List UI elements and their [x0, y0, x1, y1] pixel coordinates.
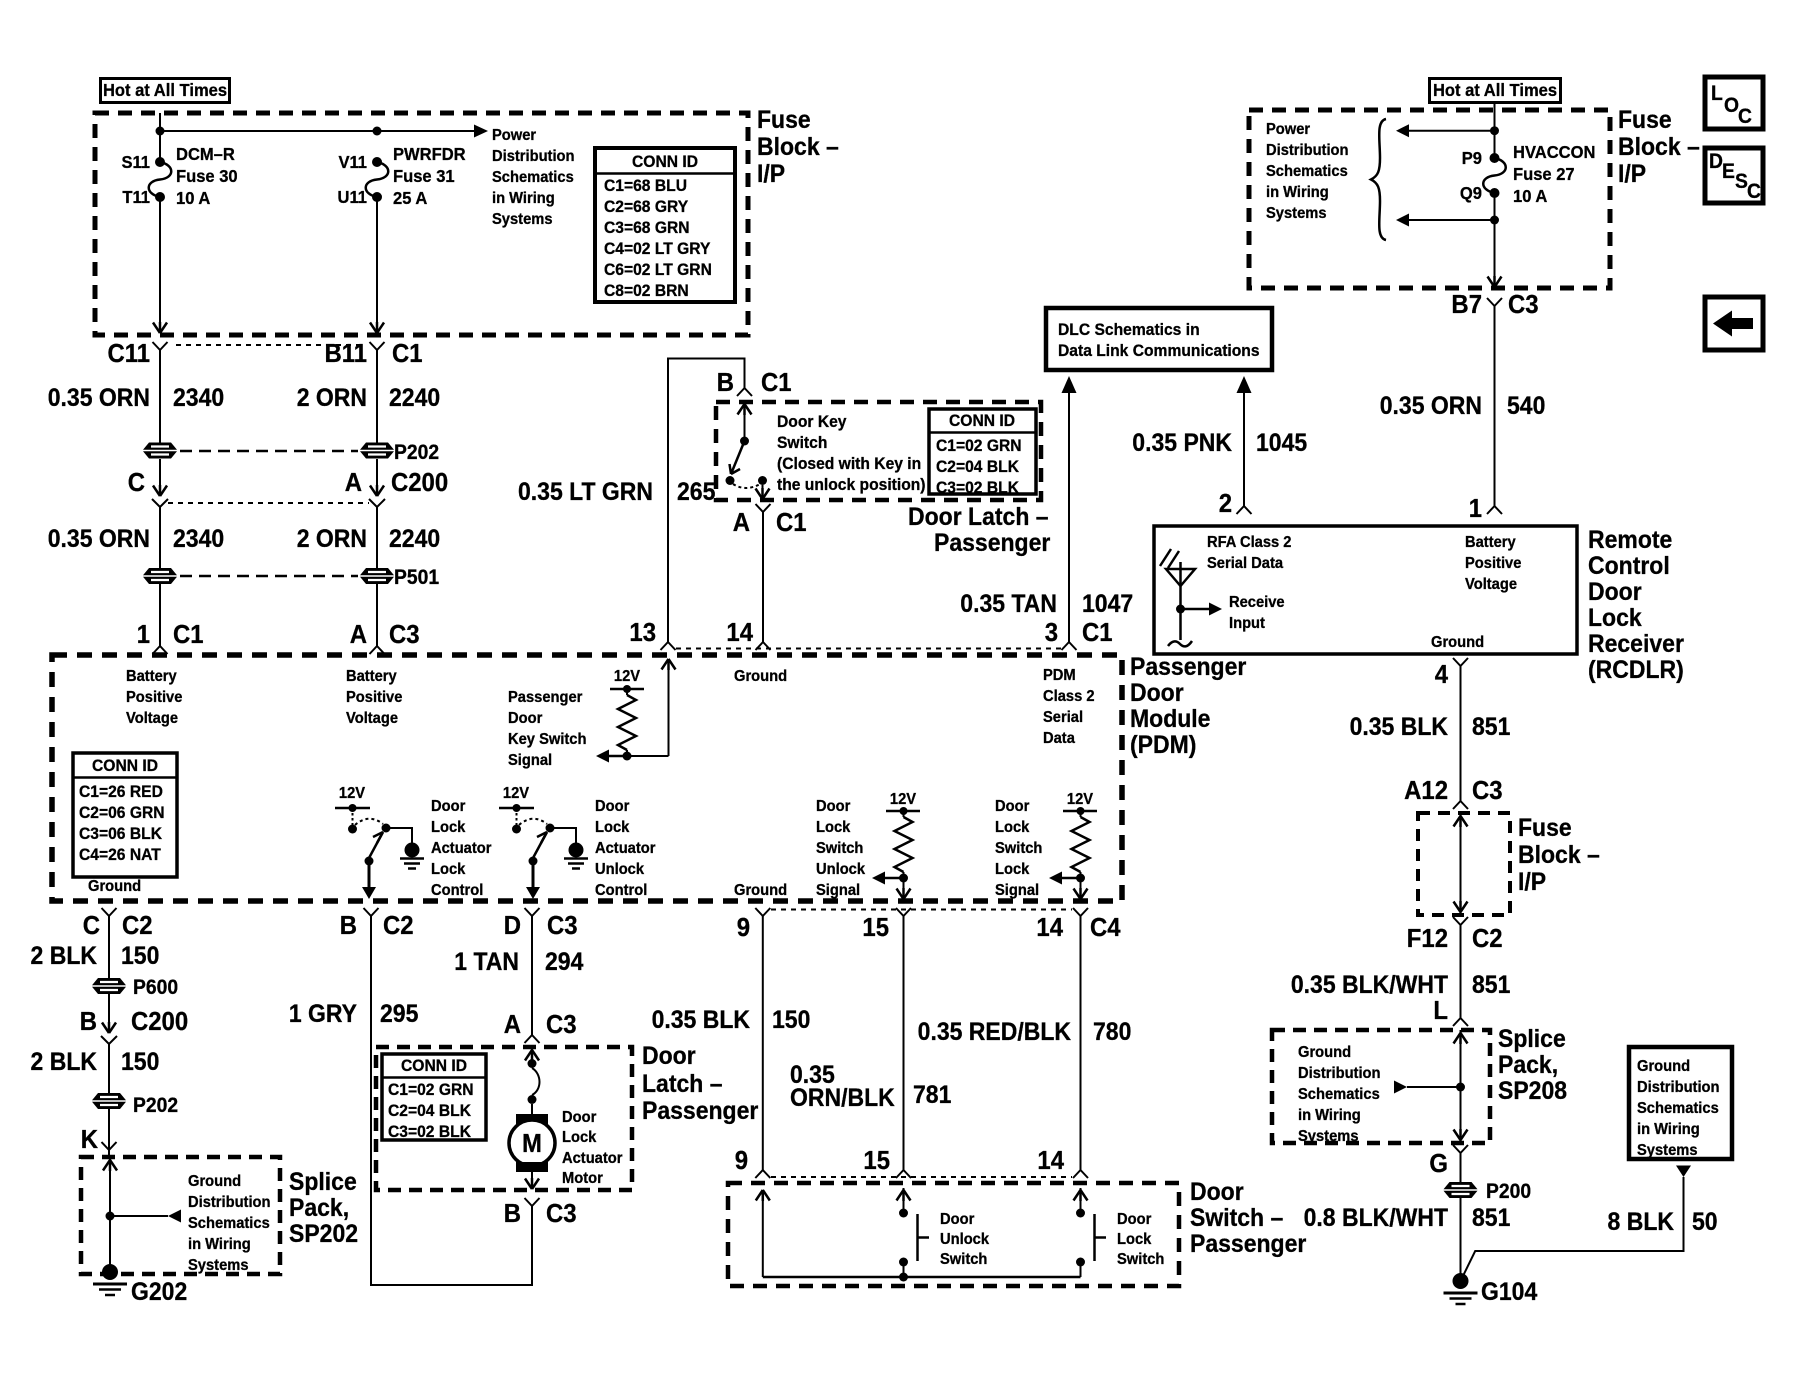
- svg-text:Switch –: Switch –: [1190, 1204, 1283, 1232]
- svg-text:C4=02 LT GRY: C4=02 LT GRY: [604, 239, 711, 258]
- svg-text:2 BLK: 2 BLK: [31, 942, 98, 970]
- svg-text:13: 13: [629, 618, 656, 647]
- svg-text:Latch –: Latch –: [642, 1070, 723, 1098]
- svg-text:CONN ID: CONN ID: [632, 152, 698, 171]
- svg-text:Power: Power: [1266, 120, 1310, 138]
- svg-text:P600: P600: [133, 976, 178, 999]
- svg-text:E: E: [1722, 160, 1735, 183]
- CONN ID table (door latch): [382, 1054, 486, 1141]
- svg-text:in Wiring: in Wiring: [188, 1235, 251, 1253]
- svg-text:150: 150: [121, 1048, 159, 1076]
- svg-text:Schematics: Schematics: [1266, 162, 1348, 180]
- svg-text:CONN ID: CONN ID: [401, 1056, 467, 1075]
- svg-text:2240: 2240: [389, 384, 440, 412]
- svg-text:15: 15: [862, 913, 889, 942]
- svg-text:Class 2: Class 2: [1043, 687, 1095, 705]
- svg-text:SP202: SP202: [289, 1220, 358, 1248]
- svg-text:Lock: Lock: [1117, 1230, 1152, 1248]
- svg-text:Lock: Lock: [431, 860, 466, 878]
- svg-text:Actuator: Actuator: [431, 839, 491, 857]
- svg-text:15: 15: [863, 1146, 890, 1175]
- svg-text:12V: 12V: [503, 784, 530, 802]
- svg-text:C2: C2: [383, 911, 414, 940]
- svg-text:Systems: Systems: [492, 210, 553, 228]
- svg-text:2 ORN: 2 ORN: [297, 525, 367, 553]
- svg-text:Lock: Lock: [431, 818, 466, 836]
- svg-text:Battery: Battery: [346, 667, 397, 685]
- note: Battery Positive Voltage (pin 1): [126, 667, 183, 727]
- svg-text:in Wiring: in Wiring: [1266, 183, 1329, 201]
- svg-text:Distribution: Distribution: [1298, 1064, 1381, 1082]
- svg-text:C1: C1: [761, 368, 792, 397]
- svg-text:D: D: [504, 911, 521, 940]
- Fuse Block - I/P dashed box (left): [95, 113, 748, 335]
- svg-text:P202: P202: [394, 441, 439, 464]
- svg-text:A: A: [733, 508, 750, 537]
- svg-text:D: D: [1709, 150, 1723, 173]
- svg-text:Key Switch: Key Switch: [508, 730, 586, 748]
- wire 15 (0.35 ORN/BLK 781): [790, 916, 951, 1178]
- PDM pins 1/C1 and A/C3: [137, 584, 204, 654]
- svg-text:Positive: Positive: [126, 688, 183, 706]
- svg-text:0.35 TAN: 0.35 TAN: [960, 590, 1057, 618]
- svg-text:G104: G104: [1481, 1278, 1538, 1306]
- svg-text:C1=26 RED: C1=26 RED: [79, 782, 163, 801]
- svg-text:Unlock: Unlock: [816, 860, 865, 878]
- svg-text:Q9: Q9: [1460, 182, 1482, 203]
- svg-text:G202: G202: [131, 1278, 187, 1306]
- svg-text:C: C: [1738, 105, 1752, 128]
- fuse F27 HVACCON 10A: [1460, 141, 1596, 206]
- svg-text:Serial Data: Serial Data: [1207, 554, 1283, 572]
- svg-text:12V: 12V: [1067, 790, 1094, 808]
- svg-text:Ground: Ground: [734, 881, 787, 899]
- wire: pin 13 to door key switch B (0.35 LT GRN 265): [518, 359, 792, 643]
- svg-text:Signal: Signal: [995, 881, 1039, 899]
- label: Door Switch - Passenger: [1190, 1178, 1306, 1258]
- svg-text:25 A: 25 A: [393, 187, 428, 208]
- svg-text:F12: F12: [1407, 924, 1448, 953]
- switch: Door Lock Switch: [1074, 1188, 1107, 1277]
- svg-text:C: C: [128, 468, 145, 497]
- svg-text:0.35 BLK: 0.35 BLK: [652, 1006, 751, 1034]
- label: Splice Pack SP208: [1498, 1025, 1567, 1105]
- svg-text:0.8 BLK/WHT: 0.8 BLK/WHT: [1304, 1204, 1449, 1232]
- svg-text:Door: Door: [940, 1210, 974, 1228]
- svg-text:Ground: Ground: [188, 1172, 241, 1190]
- Remote Control Door Lock Receiver box: [1154, 526, 1577, 654]
- svg-text:Ground: Ground: [1431, 633, 1484, 651]
- svg-text:Distribution: Distribution: [1637, 1078, 1720, 1096]
- svg-text:I/P: I/P: [757, 160, 785, 188]
- wire: fuse 30 output down: [153, 197, 167, 333]
- svg-text:(RCDLR): (RCDLR): [1588, 656, 1684, 684]
- svg-text:Lock: Lock: [995, 860, 1030, 878]
- svg-text:M: M: [522, 1129, 542, 1158]
- wire D/C3 (1 TAN 294): [454, 916, 584, 1043]
- svg-text:Splice: Splice: [1498, 1025, 1566, 1053]
- svg-text:P9: P9: [1462, 147, 1482, 168]
- svg-text:Block –: Block –: [1518, 841, 1600, 869]
- svg-text:9: 9: [735, 1146, 748, 1175]
- svg-text:0.35 ORN: 0.35 ORN: [48, 384, 150, 412]
- svg-text:50: 50: [1692, 1208, 1718, 1236]
- svg-text:Actuator: Actuator: [562, 1149, 622, 1167]
- svg-text:Pack,: Pack,: [289, 1194, 349, 1222]
- label: Hot at All Times (right): [1430, 79, 1561, 103]
- svg-text:Passenger: Passenger: [934, 529, 1050, 557]
- svg-text:0.35 BLK/WHT: 0.35 BLK/WHT: [1291, 971, 1448, 999]
- svg-text:L: L: [1433, 996, 1448, 1025]
- svg-text:2 ORN: 2 ORN: [297, 384, 367, 412]
- svg-text:C4=26 NAT: C4=26 NAT: [79, 845, 161, 864]
- wire: fuse 31 output down: [370, 197, 384, 333]
- svg-text:Door: Door: [562, 1108, 596, 1126]
- label: Fuse Block - I/P (right): [1618, 106, 1700, 188]
- svg-text:Actuator: Actuator: [595, 839, 655, 857]
- ground G104: [1444, 1273, 1538, 1306]
- svg-text:C2=04 BLK: C2=04 BLK: [936, 457, 1019, 476]
- svg-text:HVACCON: HVACCON: [1513, 141, 1595, 162]
- pass-through connector P501: [143, 566, 439, 589]
- svg-text:A12: A12: [1404, 776, 1448, 805]
- svg-text:1045: 1045: [1256, 429, 1307, 457]
- svg-text:Systems: Systems: [1266, 204, 1327, 222]
- 12V resistor: Door Lock Switch Lock Signal: [1049, 790, 1097, 899]
- svg-text:1: 1: [137, 620, 150, 649]
- svg-text:2340: 2340: [173, 384, 224, 412]
- svg-text:Block –: Block –: [757, 133, 839, 161]
- fuse F31 PWRFDR 25A: [338, 143, 467, 208]
- svg-text:C3: C3: [547, 911, 578, 940]
- svg-text:O: O: [1724, 94, 1739, 117]
- svg-text:12V: 12V: [614, 667, 641, 685]
- svg-text:C: C: [1747, 180, 1761, 203]
- svg-text:C3=68 GRN: C3=68 GRN: [604, 218, 690, 237]
- wire: door switch common ground bus: [763, 1273, 1081, 1282]
- svg-text:Switch: Switch: [816, 839, 863, 857]
- note: Ground Distribution Schematics in Wiring Systems (SP208): [1298, 1043, 1381, 1145]
- svg-text:C1=68 BLU: C1=68 BLU: [604, 176, 687, 195]
- label: Door Latch - Passenger (lower): [642, 1042, 758, 1125]
- pin B/C3 (door latch bottom): [504, 1198, 577, 1228]
- label: Hot at All Times (left): [101, 79, 230, 103]
- svg-text:Unlock: Unlock: [595, 860, 644, 878]
- svg-text:Fuse 27: Fuse 27: [1513, 163, 1575, 184]
- wire B/C2 (1 GRY 295): [289, 916, 532, 1285]
- svg-text:C200: C200: [131, 1007, 188, 1036]
- svg-text:in Wiring: in Wiring: [1637, 1120, 1700, 1138]
- PDM bottom pins C/B/D/9/15/14: [83, 908, 153, 940]
- svg-text:Systems: Systems: [188, 1256, 249, 1274]
- svg-text:265: 265: [677, 478, 715, 506]
- wire: battery bus: [156, 113, 489, 162]
- DESC box: [1705, 148, 1763, 203]
- svg-text:2 BLK: 2 BLK: [31, 1048, 98, 1076]
- svg-text:0.35 ORN: 0.35 ORN: [1380, 392, 1482, 420]
- svg-text:Fuse 31: Fuse 31: [393, 165, 455, 186]
- svg-text:C6=02 LT GRN: C6=02 LT GRN: [604, 260, 712, 279]
- svg-text:C2=06 GRN: C2=06 GRN: [79, 803, 165, 822]
- svg-text:C3: C3: [1472, 776, 1503, 805]
- svg-text:851: 851: [1472, 971, 1510, 999]
- svg-text:Voltage: Voltage: [1465, 575, 1517, 593]
- svg-text:Switch: Switch: [940, 1250, 987, 1268]
- svg-text:C1=02 GRN: C1=02 GRN: [936, 436, 1022, 455]
- wire 9 (0.35 BLK 150): [652, 916, 811, 1178]
- svg-text:Hot at All Times: Hot at All Times: [1433, 79, 1557, 100]
- Door Latch - Passenger dashed box: [376, 1047, 632, 1190]
- svg-text:in Wiring: in Wiring: [1298, 1106, 1361, 1124]
- svg-text:Voltage: Voltage: [126, 709, 178, 727]
- svg-text:U11: U11: [338, 186, 368, 207]
- svg-text:Input: Input: [1229, 614, 1265, 632]
- svg-text:Door Latch –: Door Latch –: [908, 503, 1049, 531]
- switch: Door Lock Actuator Lock Control: [335, 784, 424, 899]
- svg-text:P501: P501: [394, 566, 439, 589]
- svg-text:Fuse: Fuse: [1618, 106, 1672, 134]
- svg-text:Hot at All Times: Hot at All Times: [103, 79, 227, 100]
- connector C1 pins C11/B11: [107, 339, 422, 368]
- RCDLR pin 4: [1350, 658, 1511, 809]
- label: Remote Control Door Lock Receiver (RCDLR): [1588, 526, 1684, 684]
- svg-text:Unlock: Unlock: [940, 1230, 989, 1248]
- svg-text:C1: C1: [392, 339, 423, 368]
- svg-text:Fuse: Fuse: [1518, 814, 1572, 842]
- svg-text:C3=06 BLK: C3=06 BLK: [79, 824, 162, 843]
- svg-text:Schematics: Schematics: [492, 168, 574, 186]
- svg-text:Receiver: Receiver: [1588, 630, 1684, 658]
- svg-text:C3: C3: [1508, 290, 1539, 319]
- Splice Pack SP202 dashed box: [81, 1157, 280, 1274]
- curly brace: [1371, 119, 1386, 240]
- svg-text:Door: Door: [595, 797, 629, 815]
- svg-text:Ground: Ground: [88, 877, 141, 895]
- switch + motor: Door Lock Actuator Motor: [509, 1047, 555, 1189]
- svg-text:3: 3: [1045, 618, 1058, 647]
- svg-text:Schematics: Schematics: [1637, 1099, 1719, 1117]
- svg-text:Systems: Systems: [1637, 1141, 1698, 1159]
- svg-text:C2=68 GRY: C2=68 GRY: [604, 197, 688, 216]
- svg-text:Door: Door: [1130, 679, 1184, 707]
- svg-text:Door: Door: [1588, 578, 1642, 606]
- svg-text:Switch: Switch: [777, 433, 827, 452]
- svg-text:8 BLK: 8 BLK: [1608, 1208, 1675, 1236]
- svg-text:Serial: Serial: [1043, 708, 1083, 726]
- svg-text:RFA Class 2: RFA Class 2: [1207, 533, 1291, 551]
- svg-text:S11: S11: [121, 151, 150, 172]
- svg-text:Door: Door: [431, 797, 465, 815]
- svg-text:PDM: PDM: [1043, 666, 1076, 684]
- svg-text:B: B: [717, 368, 734, 397]
- svg-text:1: 1: [1469, 494, 1482, 523]
- note: Power Distribution Schematics in Wiring Systems (left): [492, 126, 575, 228]
- switch: door key switch: [726, 402, 770, 499]
- wire: PDM pin 3 to DLC (0.35 TAN 1047): [960, 376, 1133, 642]
- svg-text:Switch: Switch: [1117, 1250, 1164, 1268]
- svg-text:14: 14: [726, 618, 753, 647]
- svg-text:in Wiring: in Wiring: [492, 189, 555, 207]
- svg-text:0.35 ORN: 0.35 ORN: [48, 525, 150, 553]
- svg-text:Distribution: Distribution: [188, 1193, 271, 1211]
- svg-text:0.35 LT GRN: 0.35 LT GRN: [518, 478, 653, 506]
- svg-text:Ground: Ground: [1298, 1043, 1351, 1061]
- svg-text:Door: Door: [995, 797, 1029, 815]
- wire: RCDLR pin 2 to DLC (0.35 PNK 1045): [1132, 376, 1307, 518]
- svg-text:Control: Control: [1588, 552, 1670, 580]
- connector B7/C3: [1380, 290, 1546, 523]
- svg-text:C2=04 BLK: C2=04 BLK: [388, 1101, 471, 1120]
- connector B/C200: [80, 994, 188, 1044]
- svg-text:1047: 1047: [1082, 590, 1133, 618]
- svg-text:1 TAN: 1 TAN: [454, 948, 519, 976]
- svg-text:K: K: [81, 1125, 98, 1154]
- svg-text:C3: C3: [546, 1199, 577, 1228]
- svg-text:Passenger: Passenger: [1190, 1230, 1306, 1258]
- svg-text:B: B: [80, 1007, 97, 1036]
- svg-text:SP208: SP208: [1498, 1077, 1567, 1105]
- svg-text:150: 150: [121, 942, 159, 970]
- connector G / P200: [1304, 1145, 1531, 1277]
- svg-text:Control: Control: [595, 881, 647, 899]
- svg-text:Receive: Receive: [1229, 593, 1285, 611]
- svg-text:C2: C2: [122, 911, 153, 940]
- svg-text:Ground: Ground: [1637, 1057, 1690, 1075]
- svg-text:DCM–R: DCM–R: [176, 143, 235, 164]
- svg-text:C3: C3: [546, 1010, 577, 1039]
- svg-text:Battery: Battery: [1465, 533, 1516, 551]
- switch: Door Unlock Switch: [897, 1188, 930, 1277]
- svg-text:C200: C200: [391, 468, 448, 497]
- svg-text:Distribution: Distribution: [492, 147, 575, 165]
- svg-text:L: L: [1711, 82, 1723, 105]
- 12V resistor: Door Lock Switch Unlock Signal: [872, 790, 920, 899]
- svg-text:Passenger: Passenger: [642, 1097, 758, 1125]
- note: Door Lock Actuator Motor: [562, 1108, 622, 1187]
- LOC box: [1705, 77, 1763, 129]
- pass-through connector P202 (top): [143, 441, 439, 464]
- svg-text:CONN ID: CONN ID: [92, 756, 158, 775]
- svg-text:ORN/BLK: ORN/BLK: [790, 1084, 895, 1112]
- svg-text:Passenger: Passenger: [508, 688, 582, 706]
- svg-text:C1=02 GRN: C1=02 GRN: [388, 1080, 474, 1099]
- note: Power Distribution Schematics in Wiring Systems (right): [1266, 120, 1349, 222]
- svg-text:C2: C2: [1472, 924, 1503, 953]
- svg-text:C3=02 BLK: C3=02 BLK: [936, 478, 1019, 497]
- PDM top pins 13/14/3: [629, 618, 1112, 650]
- svg-text:Lock: Lock: [595, 818, 630, 836]
- svg-text:C3: C3: [389, 620, 420, 649]
- svg-text:C1: C1: [1082, 618, 1113, 647]
- label: Fuse Block - I/P (left): [757, 106, 839, 188]
- svg-text:(PDM): (PDM): [1130, 731, 1196, 759]
- ground G202: [93, 1264, 187, 1306]
- svg-text:Data Link Communications: Data Link Communications: [1058, 341, 1260, 360]
- svg-text:0.35 PNK: 0.35 PNK: [1132, 429, 1232, 457]
- wire K to P202 (2 BLK 150): [31, 1044, 179, 1157]
- wire 8 BLK 50 to G104: [1462, 1166, 1718, 1279]
- svg-text:781: 781: [913, 1081, 951, 1109]
- svg-text:Lock: Lock: [1588, 604, 1642, 632]
- svg-text:Signal: Signal: [816, 881, 860, 899]
- svg-text:Motor: Motor: [562, 1169, 603, 1187]
- wire: key switch A to PDM pin 14: [733, 504, 807, 642]
- svg-text:S: S: [1735, 170, 1748, 193]
- svg-text:Systems: Systems: [1298, 1127, 1359, 1145]
- wire F12/C2 to splice pack (0.35 BLK/WHT 851): [1291, 917, 1511, 1026]
- svg-text:Door: Door: [1190, 1178, 1244, 1206]
- svg-text:V11: V11: [338, 151, 367, 172]
- svg-text:C11: C11: [107, 339, 150, 368]
- svg-text:851: 851: [1472, 713, 1510, 741]
- svg-text:Schematics: Schematics: [1298, 1085, 1380, 1103]
- svg-text:780: 780: [1093, 1018, 1131, 1046]
- label: Door Latch - Passenger (upper): [908, 503, 1050, 557]
- svg-text:Power: Power: [492, 126, 536, 144]
- svg-text:the unlock position): the unlock position): [777, 475, 926, 494]
- wire C/C2 to P600 (2 BLK 150): [31, 916, 179, 999]
- svg-text:C8=02 BRN: C8=02 BRN: [604, 281, 689, 300]
- CONN ID table (PDM): [73, 753, 177, 877]
- svg-text:1 GRY: 1 GRY: [289, 1000, 357, 1028]
- note: Door Key Switch (Closed with Key in the unlock position): [777, 412, 926, 494]
- svg-text:Schematics: Schematics: [188, 1214, 270, 1232]
- svg-text:294: 294: [545, 948, 584, 976]
- svg-text:G: G: [1429, 1149, 1448, 1178]
- Splice Pack SP208 dashed box: [1272, 1030, 1490, 1143]
- svg-text:2240: 2240: [389, 525, 440, 553]
- CONN ID table (door key switch): [929, 409, 1036, 497]
- svg-text:DLC Schematics in: DLC Schematics in: [1058, 320, 1200, 339]
- svg-text:10 A: 10 A: [176, 187, 211, 208]
- reference box: DLC Schematics in Data Link Communications: [1046, 308, 1272, 370]
- svg-text:Remote: Remote: [1588, 526, 1672, 554]
- svg-text:9: 9: [737, 913, 750, 942]
- svg-text:2: 2: [1219, 489, 1232, 518]
- svg-text:PWRFDR: PWRFDR: [393, 143, 466, 164]
- wire 14 (0.35 RED/BLK 780): [771, 916, 1131, 1178]
- svg-text:I/P: I/P: [1618, 160, 1646, 188]
- svg-text:C3=02 BLK: C3=02 BLK: [388, 1122, 471, 1141]
- svg-text:Ground: Ground: [734, 667, 787, 685]
- svg-text:C4: C4: [1090, 913, 1121, 942]
- svg-text:CONN ID: CONN ID: [949, 411, 1015, 430]
- svg-text:2340: 2340: [173, 525, 224, 553]
- svg-text:C1: C1: [776, 508, 807, 537]
- svg-text:Lock: Lock: [995, 818, 1030, 836]
- wire 9 inside: [756, 1190, 770, 1277]
- svg-text:540: 540: [1507, 392, 1545, 420]
- svg-text:B11: B11: [324, 339, 367, 368]
- svg-text:Passenger: Passenger: [1130, 653, 1246, 681]
- svg-text:Door Key: Door Key: [777, 412, 847, 431]
- svg-text:Signal: Signal: [508, 751, 552, 769]
- label: Passenger Door Module (PDM): [1130, 653, 1246, 759]
- svg-text:Door: Door: [642, 1042, 696, 1070]
- svg-text:Door: Door: [816, 797, 850, 815]
- note: Ground Distribution Schematics in Wiring Systems (SP202): [188, 1172, 271, 1274]
- svg-text:A: A: [504, 1010, 521, 1039]
- svg-text:C: C: [83, 911, 100, 940]
- svg-text:Battery: Battery: [126, 667, 177, 685]
- svg-text:B7: B7: [1451, 290, 1482, 319]
- svg-text:Control: Control: [431, 881, 483, 899]
- svg-text:T11: T11: [122, 186, 150, 207]
- svg-text:Splice: Splice: [289, 1168, 357, 1196]
- reference box: Ground Distribution Schematics (solid): [1629, 1047, 1732, 1159]
- label: Splice Pack SP202: [289, 1168, 358, 1248]
- Door Switch - Passenger dashed box: [728, 1183, 1179, 1286]
